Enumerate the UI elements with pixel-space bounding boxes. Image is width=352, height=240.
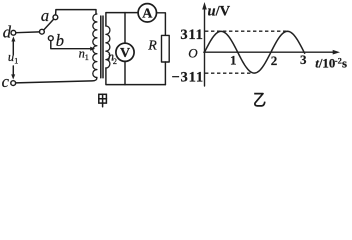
graph: y axis bbox=[204, 7, 334, 86]
contact b bbox=[48, 36, 53, 41]
svg-text:a: a bbox=[41, 6, 49, 25]
y axis arrowhead bbox=[202, 2, 207, 10]
contact a bbox=[53, 15, 58, 20]
secondary top corner bbox=[106, 13, 138, 26]
voltmeter branch bottom bbox=[124, 61, 126, 84]
svg-text:1: 1 bbox=[14, 56, 18, 66]
dashed line -311 bbox=[205, 72, 251, 74]
terminal c bbox=[11, 81, 16, 86]
svg-text:A: A bbox=[142, 7, 153, 22]
svg-text:1: 1 bbox=[230, 53, 237, 68]
svg-text:311: 311 bbox=[180, 27, 203, 43]
svg-text:d: d bbox=[3, 23, 12, 42]
label jia (甲) drawn as strokes bbox=[99, 94, 107, 107]
secondary coil n2 bbox=[106, 26, 110, 68]
svg-text:V: V bbox=[120, 46, 130, 61]
svg-text:-2: -2 bbox=[335, 56, 342, 66]
switch blade to a bbox=[44, 19, 54, 30]
wire b to tap bbox=[51, 41, 92, 49]
svg-text:2: 2 bbox=[113, 56, 117, 66]
svg-text:−311: −311 bbox=[171, 70, 203, 86]
wire d to switch pivot bbox=[16, 31, 39, 34]
svg-text:R: R bbox=[147, 38, 157, 53]
terminal d bbox=[11, 30, 16, 35]
ammeter circle bbox=[138, 4, 156, 22]
svg-text:s: s bbox=[342, 56, 347, 70]
dashed line +311 bbox=[205, 30, 288, 32]
x axis arrowhead bbox=[333, 50, 340, 55]
svg-text:u/V: u/V bbox=[208, 3, 231, 19]
resistor bottom lead bbox=[164, 62, 166, 85]
svg-text:3: 3 bbox=[300, 52, 307, 67]
wire ammeter to resistor corner bbox=[157, 13, 166, 36]
resistor R body bbox=[162, 35, 170, 62]
secondary bottom stub bbox=[106, 68, 165, 85]
switch pivot bbox=[40, 29, 45, 34]
core line left bbox=[100, 16, 102, 78]
label yi (乙) drawn as strokes bbox=[254, 94, 265, 106]
svg-text:t/10: t/10 bbox=[315, 56, 335, 70]
primary bottom lead bbox=[16, 78, 97, 83]
svg-text:b: b bbox=[56, 31, 64, 50]
x axis bbox=[204, 51, 334, 53]
sine curve bbox=[205, 31, 305, 73]
wire a to transformer top bbox=[56, 10, 96, 15]
voltmeter branch top bbox=[124, 13, 126, 44]
u1 arrow down bbox=[12, 66, 14, 75]
tap arrowhead bbox=[90, 47, 95, 51]
u1 arrow up bbox=[12, 41, 14, 55]
svg-text:2: 2 bbox=[271, 53, 278, 68]
primary coil n1 bbox=[93, 14, 97, 78]
voltmeter circle bbox=[116, 43, 134, 61]
svg-text:1: 1 bbox=[85, 52, 89, 62]
svg-text:O: O bbox=[188, 46, 198, 61]
core line right bbox=[102, 16, 104, 78]
svg-text:c: c bbox=[2, 72, 10, 91]
